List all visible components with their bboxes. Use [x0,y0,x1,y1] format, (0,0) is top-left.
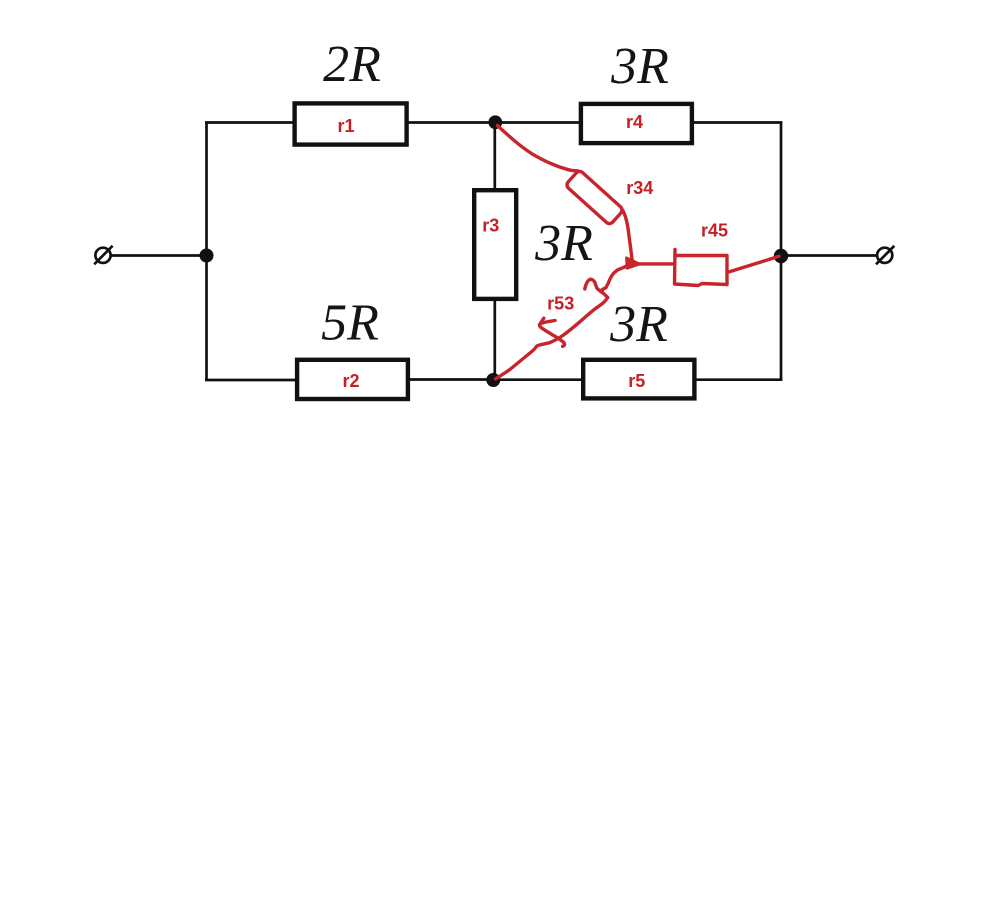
svg-text:r34: r34 [626,178,653,198]
svg-text:3R: 3R [610,38,669,95]
svg-text:3R: 3R [534,215,593,272]
svg-text:r1: r1 [337,116,354,136]
svg-text:r2: r2 [342,371,359,391]
svg-text:r4: r4 [626,112,643,132]
svg-text:r3: r3 [482,216,499,236]
svg-text:5R: 5R [321,294,379,351]
svg-text:3R: 3R [609,296,668,353]
svg-text:2R: 2R [323,36,381,93]
svg-text:r5: r5 [628,371,645,391]
svg-text:r45: r45 [701,220,728,240]
svg-text:r53: r53 [547,293,574,313]
